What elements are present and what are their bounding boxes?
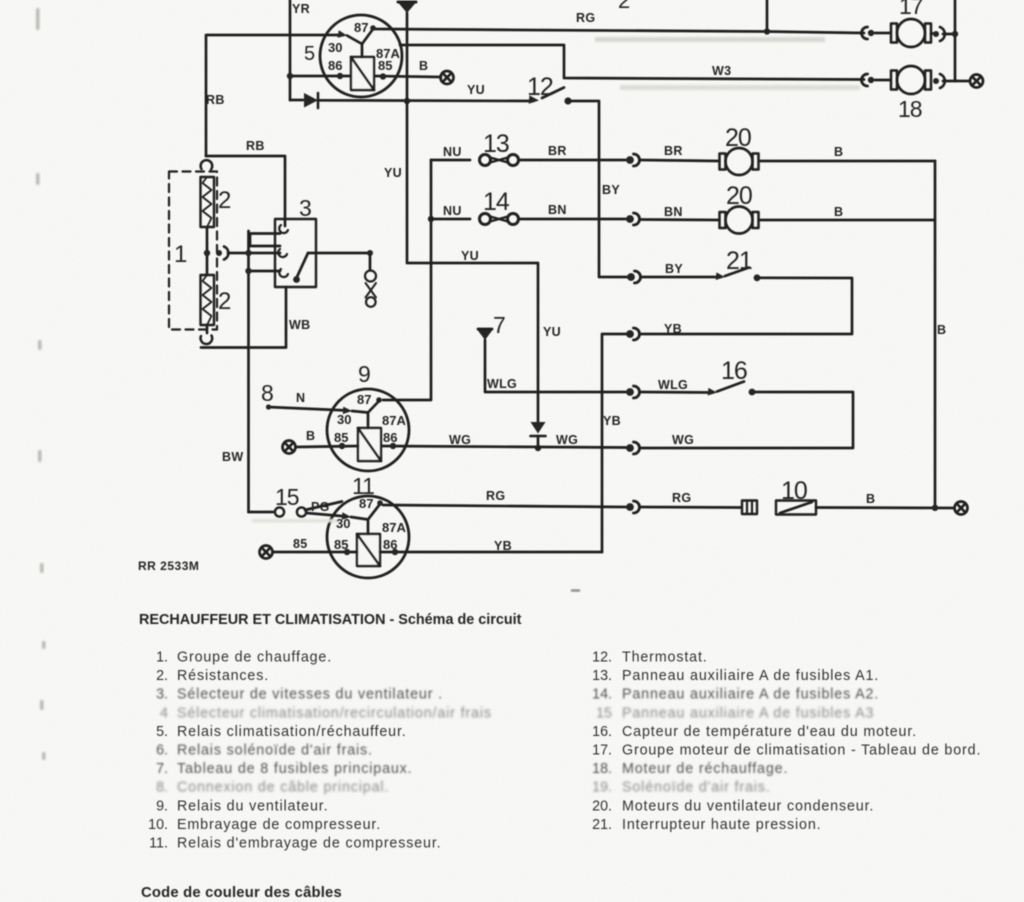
svg-text:Interrupteur haute pression.: Interrupteur haute pression. bbox=[622, 817, 821, 833]
svg-text:RG: RG bbox=[576, 11, 595, 25]
svg-text:Relais climatisation/réchauffe: Relais climatisation/réchauffeur. bbox=[177, 724, 407, 740]
svg-text:RB: RB bbox=[206, 93, 225, 107]
svg-text:7: 7 bbox=[493, 312, 505, 338]
svg-text:20: 20 bbox=[726, 182, 752, 210]
svg-text:87: 87 bbox=[357, 392, 371, 407]
svg-text:86: 86 bbox=[383, 537, 397, 552]
svg-text:B: B bbox=[419, 59, 428, 73]
svg-text:Groupe moteur de climatisation: Groupe moteur de climatisation - Tableau… bbox=[622, 743, 981, 759]
svg-text:NU: NU bbox=[443, 145, 462, 159]
svg-text:12: 12 bbox=[527, 73, 553, 101]
svg-text:WG: WG bbox=[556, 433, 578, 447]
svg-text:BY: BY bbox=[602, 183, 620, 197]
svg-text:12.: 12. bbox=[592, 650, 612, 666]
svg-text:BN: BN bbox=[664, 205, 683, 219]
svg-text:YU: YU bbox=[543, 325, 561, 339]
svg-text:2: 2 bbox=[218, 187, 231, 214]
svg-text:18.: 18. bbox=[592, 761, 612, 777]
svg-text:30: 30 bbox=[337, 412, 351, 427]
svg-text:21: 21 bbox=[726, 247, 752, 275]
svg-text:Moteurs du ventilateur condens: Moteurs du ventilateur condenseur. bbox=[622, 798, 874, 814]
svg-text:11.: 11. bbox=[149, 836, 168, 852]
svg-text:8: 8 bbox=[261, 380, 273, 406]
svg-text:RECHAUFFEUR ET CLIMATISATION -: RECHAUFFEUR ET CLIMATISATION - Schéma de… bbox=[139, 612, 522, 628]
svg-text:WLG: WLG bbox=[487, 377, 517, 391]
svg-text:87A: 87A bbox=[382, 520, 406, 535]
svg-text:PG: PG bbox=[311, 500, 330, 514]
svg-text:Sélecteur climatisation/recirc: Sélecteur climatisation/recirculation/ai… bbox=[177, 705, 492, 721]
svg-text:YU: YU bbox=[461, 249, 479, 263]
svg-text:3.: 3. bbox=[156, 687, 168, 703]
svg-text:BR: BR bbox=[664, 144, 683, 158]
svg-text:Panneau auxiliaire A de fusibl: Panneau auxiliaire A de fusibles A2. bbox=[622, 687, 879, 703]
svg-text:Connexion de câble principal.: Connexion de câble principal. bbox=[177, 780, 389, 796]
svg-text:RG: RG bbox=[486, 489, 505, 503]
svg-text:85: 85 bbox=[334, 430, 348, 445]
svg-text:Résistances.: Résistances. bbox=[177, 668, 269, 684]
svg-text:1: 1 bbox=[174, 241, 187, 268]
svg-text:4: 4 bbox=[160, 705, 168, 721]
svg-text:WG: WG bbox=[449, 433, 471, 447]
svg-text:B: B bbox=[834, 205, 843, 219]
svg-text:17.: 17. bbox=[592, 743, 612, 759]
svg-text:5: 5 bbox=[304, 43, 315, 65]
svg-text:2.: 2. bbox=[156, 668, 168, 684]
svg-text:17: 17 bbox=[899, 0, 923, 19]
svg-text:Thermostat.: Thermostat. bbox=[622, 650, 708, 666]
svg-text:6.: 6. bbox=[156, 743, 168, 759]
svg-text:Embrayage de compresseur.: Embrayage de compresseur. bbox=[177, 817, 381, 833]
svg-text:YB: YB bbox=[664, 322, 682, 336]
svg-text:21.: 21. bbox=[592, 817, 612, 833]
svg-text:14: 14 bbox=[483, 188, 510, 216]
svg-text:3: 3 bbox=[299, 195, 311, 221]
svg-text:2: 2 bbox=[218, 288, 231, 315]
svg-text:YU: YU bbox=[384, 166, 402, 180]
svg-text:B: B bbox=[306, 429, 315, 443]
svg-text:7.: 7. bbox=[156, 761, 168, 777]
svg-text:13.: 13. bbox=[592, 668, 612, 684]
svg-text:20.: 20. bbox=[592, 798, 612, 814]
svg-text:5.: 5. bbox=[156, 724, 168, 740]
svg-text:85: 85 bbox=[378, 58, 392, 73]
svg-text:YB: YB bbox=[603, 414, 621, 428]
svg-text:Panneau auxiliaire A de fusibl: Panneau auxiliaire A de fusibles A3 bbox=[622, 705, 874, 721]
svg-text:15: 15 bbox=[275, 484, 299, 510]
svg-text:BN: BN bbox=[548, 203, 567, 217]
svg-text:15: 15 bbox=[596, 705, 612, 721]
svg-text:BY: BY bbox=[665, 262, 683, 276]
svg-text:1.: 1. bbox=[156, 650, 168, 666]
svg-text:19.: 19. bbox=[592, 780, 612, 796]
svg-text:N: N bbox=[296, 391, 305, 405]
svg-text:WB: WB bbox=[289, 318, 310, 332]
svg-text:BW: BW bbox=[222, 450, 243, 464]
svg-text:W3: W3 bbox=[712, 64, 731, 78]
svg-text:B: B bbox=[834, 145, 843, 159]
svg-text:10.: 10. bbox=[148, 817, 168, 833]
svg-text:Moteur de réchauffage.: Moteur de réchauffage. bbox=[622, 761, 788, 777]
svg-text:WG: WG bbox=[672, 433, 694, 447]
svg-text:WLG: WLG bbox=[658, 378, 688, 392]
svg-text:Relais du ventilateur.: Relais du ventilateur. bbox=[177, 798, 328, 814]
svg-text:14.: 14. bbox=[592, 687, 612, 703]
svg-text:RR 2533M: RR 2533M bbox=[138, 559, 199, 573]
svg-text:18: 18 bbox=[898, 96, 922, 122]
svg-text:9.: 9. bbox=[156, 798, 168, 814]
svg-text:BR: BR bbox=[548, 144, 567, 158]
svg-text:YR: YR bbox=[292, 2, 310, 16]
svg-text:Capteur de température d'eau d: Capteur de température d'eau du moteur. bbox=[622, 724, 917, 740]
svg-text:85: 85 bbox=[334, 537, 348, 552]
svg-text:RB: RB bbox=[246, 139, 265, 153]
svg-text:NU: NU bbox=[443, 204, 462, 218]
svg-text:86: 86 bbox=[383, 430, 397, 445]
svg-text:87A: 87A bbox=[382, 413, 406, 428]
svg-text:Sélecteur de vitesses du venti: Sélecteur de vitesses du ventilateur . bbox=[177, 687, 443, 703]
svg-text:Panneau auxiliaire A de fusibl: Panneau auxiliaire A de fusibles A1. bbox=[622, 668, 879, 684]
svg-text:Relais solénoïde d'air frais.: Relais solénoïde d'air frais. bbox=[177, 743, 373, 759]
svg-text:B: B bbox=[937, 323, 946, 337]
svg-text:YB: YB bbox=[494, 539, 512, 553]
svg-text:Code de couleur des câbles: Code de couleur des câbles bbox=[141, 885, 342, 901]
svg-text:Groupe de chauffage.: Groupe de chauffage. bbox=[177, 650, 332, 666]
svg-text:13: 13 bbox=[483, 130, 509, 158]
svg-text:85: 85 bbox=[293, 537, 308, 551]
svg-text:10: 10 bbox=[781, 477, 807, 505]
svg-text:16: 16 bbox=[721, 357, 747, 385]
svg-text:Tableau de 8 fusibles principa: Tableau de 8 fusibles principaux. bbox=[177, 761, 413, 777]
svg-text:Solénoïde d'air frais.: Solénoïde d'air frais. bbox=[622, 780, 771, 796]
svg-text:87: 87 bbox=[354, 20, 368, 35]
svg-text:Relais d'embrayage de compress: Relais d'embrayage de compresseur. bbox=[177, 836, 441, 852]
svg-text:30: 30 bbox=[336, 516, 350, 531]
svg-text:30: 30 bbox=[328, 40, 342, 55]
svg-text:YU: YU bbox=[467, 83, 485, 97]
svg-text:16.: 16. bbox=[592, 724, 612, 740]
svg-text:B: B bbox=[866, 492, 875, 506]
svg-text:8.: 8. bbox=[156, 780, 168, 796]
svg-text:86: 86 bbox=[328, 58, 342, 73]
svg-text:87: 87 bbox=[359, 496, 373, 511]
svg-text:9: 9 bbox=[358, 361, 370, 387]
svg-text:RG: RG bbox=[672, 491, 691, 505]
svg-text:20: 20 bbox=[725, 124, 751, 152]
svg-text:2: 2 bbox=[618, 0, 630, 13]
